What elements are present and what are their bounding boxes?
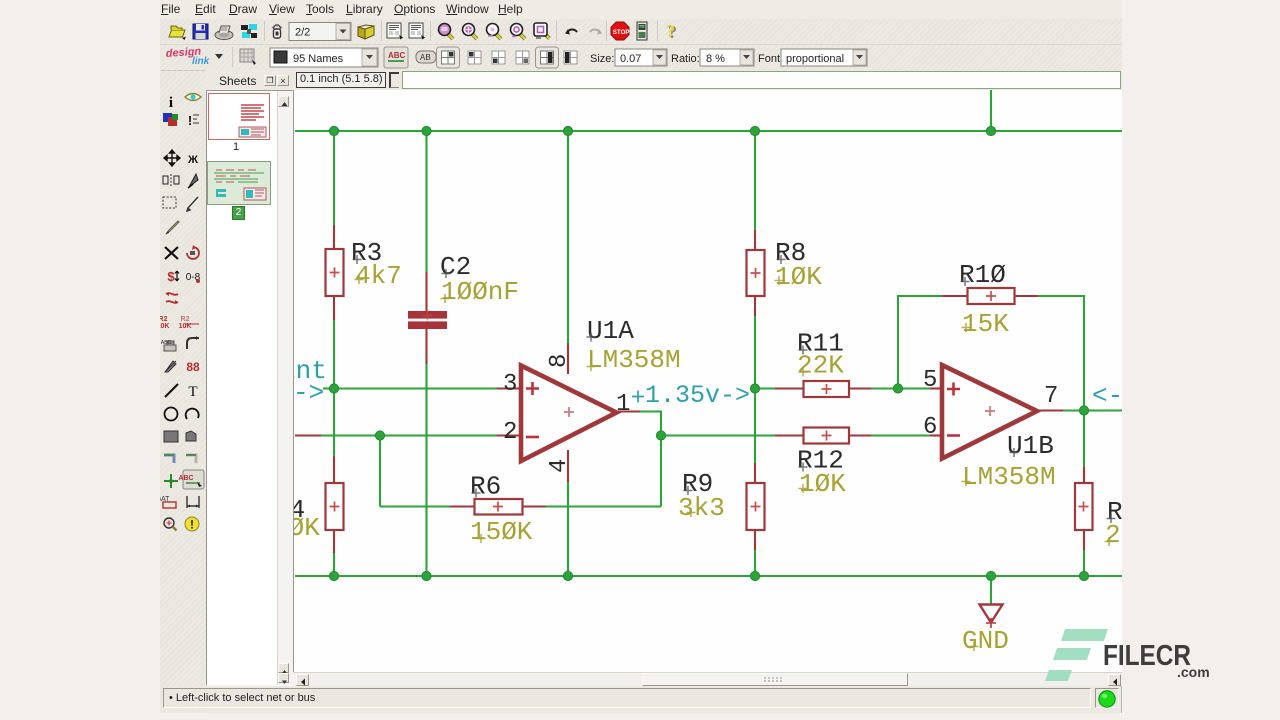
svg-text:2: 2 <box>503 419 517 446</box>
node bottom bus R4 <box>329 571 338 580</box>
tool measure <box>188 113 199 128</box>
svg-text:1ØK: 1ØK <box>775 262 822 292</box>
wire lead R10 right <box>1014 295 1038 297</box>
svg-text:1: 1 <box>616 391 630 418</box>
resistor R3 <box>326 249 344 296</box>
wire vertical R3 R4 branch <box>333 131 335 576</box>
toolbar row 2 <box>160 45 1122 71</box>
print icon <box>215 26 233 40</box>
grid icon <box>240 49 256 65</box>
svg-text:LM358M: LM358M <box>587 345 681 375</box>
separator <box>264 21 265 41</box>
menu bar <box>160 0 1122 20</box>
svg-text:1ØØnF: 1ØØnF <box>441 277 519 307</box>
origin marker R12 <box>799 463 808 472</box>
origin marker 10K R8 <box>775 276 784 285</box>
resistor R10 <box>968 288 1015 304</box>
tool view eye <box>185 94 201 101</box>
sheets scrollbar <box>277 91 293 685</box>
tool dat <box>159 496 176 508</box>
open icon <box>169 26 186 40</box>
wire lead R12 right <box>848 434 871 436</box>
hscroll right arrow <box>1108 674 1121 686</box>
tool line <box>165 384 178 397</box>
node pin2 net <box>375 431 384 440</box>
status LED <box>1095 688 1119 708</box>
separator <box>606 21 607 41</box>
origin marker R13 <box>1107 514 1116 523</box>
value marker R3 <box>330 268 340 278</box>
origin marker 150K <box>477 534 486 543</box>
wire lead U1A pin3 <box>497 387 522 389</box>
zoom prev icon <box>487 24 502 40</box>
value marker R13 <box>1079 502 1089 512</box>
zoom page icon <box>534 23 550 39</box>
tool dimension <box>187 496 199 508</box>
lock icon <box>272 24 282 38</box>
svg-text:7: 7 <box>1044 383 1058 410</box>
svg-text:2/2: 2/2 <box>295 27 310 39</box>
origin marker 22K <box>799 368 808 377</box>
svg-text:10K: 10K <box>160 323 169 330</box>
value marker R11 <box>822 384 832 394</box>
canvas <box>293 90 1122 672</box>
report icon <box>637 22 647 40</box>
separator <box>430 21 431 41</box>
wire lead R12 left <box>775 434 804 436</box>
origin marker 3k3 <box>687 508 696 517</box>
node bottom bus R9 <box>750 571 759 580</box>
svg-text:Font:: Font: <box>758 53 783 65</box>
svg-text:ABC: ABC <box>161 340 172 346</box>
stop icon <box>611 22 630 40</box>
value marker R9 <box>751 502 761 512</box>
value marker R8 <box>751 268 761 278</box>
svg-text:1.35v->: 1.35v-> <box>645 381 750 410</box>
wire lead U1B pin5 <box>930 387 943 389</box>
svg-text:95 Names: 95 Names <box>293 53 344 65</box>
svg-text:3: 3 <box>503 371 517 398</box>
svg-text:ABC: ABC <box>178 475 193 482</box>
hscroll left arrow <box>296 674 309 686</box>
origin marker R9 <box>684 486 693 495</box>
netlist icon 1 <box>387 23 403 40</box>
zoom in icon <box>463 24 478 40</box>
wire top supply bus <box>295 130 1122 132</box>
wire lead U1B pin6 <box>930 434 943 436</box>
node top bus R3 <box>329 126 338 135</box>
resistor R4 <box>326 483 344 530</box>
svg-text:0.07: 0.07 <box>620 53 641 65</box>
hscroll <box>293 672 1122 686</box>
wire lead R4 top <box>333 456 335 484</box>
tool corner <box>187 336 199 349</box>
svg-text:->: -> <box>294 378 324 408</box>
statusbar <box>160 686 1122 710</box>
ground <box>980 605 1003 629</box>
svg-text:Size:: Size: <box>590 53 614 65</box>
svg-text:proportional: proportional <box>786 53 844 65</box>
svg-text:T: T <box>188 384 197 400</box>
wire R6 run <box>380 436 661 507</box>
canvas top bar <box>293 70 1122 90</box>
wire lead C2 top <box>425 272 427 312</box>
resistor R11 <box>804 381 850 397</box>
node R10 tap <box>893 384 902 393</box>
wire lead R6 left <box>450 505 475 507</box>
origin marker 4k7 <box>355 275 364 284</box>
tool find zoom <box>164 518 177 531</box>
svg-text:22K: 22K <box>797 351 844 381</box>
wire R11 run to U1B pin5 <box>755 387 931 389</box>
node bottom bus R13 <box>1079 571 1088 580</box>
origin marker U1A <box>587 333 596 342</box>
wire vertical C2 branch <box>425 131 427 576</box>
tool pencil <box>166 221 179 234</box>
wire vertical R8 R9 branch <box>754 131 756 576</box>
resistor R6 <box>475 499 523 515</box>
wire lead R13 bottom <box>1083 529 1085 550</box>
svg-text:U1A: U1A <box>587 316 634 346</box>
zoom sel icon <box>511 24 526 40</box>
origin marker 22 clipped <box>1105 537 1114 546</box>
wire R13 branch <box>1083 411 1085 577</box>
node top bus entry <box>986 126 995 135</box>
origin marker R8 <box>777 255 786 264</box>
origin marker C2 <box>442 269 451 278</box>
export icon <box>241 24 257 38</box>
sheets restore button <box>264 75 276 86</box>
wire top supply entry <box>990 90 992 131</box>
separator <box>556 21 557 41</box>
node bottom bus C2 <box>422 571 431 580</box>
save icon <box>193 24 208 39</box>
value marker R10 <box>986 291 996 301</box>
node top bus U1A <box>563 126 572 135</box>
tool error <box>185 517 199 532</box>
wire lead R13 top <box>1083 467 1085 484</box>
svg-text:.com: .com <box>1177 664 1210 680</box>
tool select <box>163 197 176 208</box>
resistor R9 <box>747 483 765 530</box>
tool text abc pressed <box>178 470 204 489</box>
capacitor C2 <box>408 311 447 319</box>
tool move <box>164 150 180 166</box>
toolbar row 1 <box>160 19 1122 45</box>
abc button <box>384 47 408 68</box>
wire feedback node to R12 and U1B pin6 <box>661 434 931 436</box>
svg-text:R1Ø: R1Ø <box>959 260 1006 290</box>
tool mirror <box>163 174 179 186</box>
value marker C2 <box>423 311 433 321</box>
position buttons <box>437 47 578 68</box>
svg-text:link: link <box>192 56 210 67</box>
tool copper 2 <box>186 455 196 463</box>
node pin3 net <box>329 384 338 393</box>
tool rotate flag <box>188 174 198 188</box>
sheets list <box>206 90 293 686</box>
wire U1A pin2 input net <box>321 434 498 436</box>
hscroll thumb <box>642 673 908 686</box>
wire lead R9 top <box>754 463 756 484</box>
tool stamp <box>161 340 176 351</box>
wire R10 feedback run <box>898 296 1084 411</box>
tool copper <box>164 455 174 463</box>
tool delete <box>165 247 178 259</box>
wire lead R4 bottom <box>333 529 335 553</box>
svg-text:!: ! <box>188 113 192 128</box>
svg-text:4k7: 4k7 <box>355 261 402 291</box>
wire lead C2 bottom <box>425 328 427 364</box>
undo icon <box>565 29 577 35</box>
colour combo 95 Names <box>270 48 378 67</box>
wire vertical U1A power branch <box>567 131 569 576</box>
origin marker GND <box>970 642 979 651</box>
wire lead U1A pin2 <box>295 434 522 436</box>
svg-text:STOP: STOP <box>613 29 630 36</box>
wire U1A output to feedback node <box>639 412 661 507</box>
origin marker 10K R12 <box>799 484 808 493</box>
svg-text:$: $ <box>167 269 175 284</box>
origin marker LM358M B <box>962 477 971 486</box>
sheet thumbnail 2 selected <box>207 161 271 205</box>
tool circle <box>165 408 178 421</box>
svg-text:8 %: 8 % <box>706 53 725 65</box>
svg-text:R2: R2 <box>160 316 168 323</box>
wire lead R8 top <box>754 230 756 251</box>
tool ref text <box>157 316 170 330</box>
tool rotate shape <box>187 245 199 259</box>
origin marker R11 <box>799 346 808 355</box>
wire lead R6 right <box>521 505 546 507</box>
coordinate readout <box>296 72 386 88</box>
separator <box>381 21 382 41</box>
wire U1A pin3 input net <box>323 387 498 389</box>
svg-text:GND: GND <box>962 626 1009 656</box>
node top bus R8 <box>750 126 759 135</box>
svg-text:3k3: 3k3 <box>678 493 725 523</box>
redo icon <box>590 29 602 35</box>
node top bus C2 <box>422 126 431 135</box>
node U1A feedback <box>656 431 665 440</box>
tool stretch <box>167 269 179 284</box>
tool add node <box>164 474 178 488</box>
origin marker U1B <box>1010 448 1019 457</box>
origin marker R3 <box>353 255 362 264</box>
wire lead R3 bottom <box>333 295 335 320</box>
wire lead U1A pin8 <box>567 343 569 374</box>
svg-text:5: 5 <box>923 367 937 394</box>
sheets panel <box>206 70 293 686</box>
svg-text:<-I: <-I <box>1092 381 1122 411</box>
svg-text:88: 88 <box>186 360 200 374</box>
tool value text <box>179 316 199 330</box>
wire lead R8 bottom <box>754 295 756 316</box>
tool polygon <box>186 431 196 441</box>
svg-text:4: 4 <box>546 459 573 473</box>
svg-text:?: ? <box>666 21 675 41</box>
op-amp U1A <box>521 366 617 462</box>
origin marker R10 <box>961 277 970 286</box>
origin marker R6 <box>472 489 481 498</box>
origin marker 100nF <box>441 294 450 303</box>
wire lead U1A pin4 <box>567 450 569 482</box>
tool net pair <box>186 360 200 374</box>
svg-text:6: 6 <box>923 414 937 441</box>
tool arc <box>186 409 199 419</box>
wire GND drop <box>990 576 992 604</box>
value marker R12 <box>822 431 832 441</box>
value marker R6 <box>493 502 503 512</box>
page combo 2/2 <box>289 23 351 41</box>
svg-text:15ØK: 15ØK <box>470 517 533 547</box>
svg-text:8: 8 <box>546 354 573 368</box>
node bottom bus GND <box>986 571 995 580</box>
tool gang <box>187 154 198 166</box>
separator <box>657 21 658 41</box>
resistor R8 <box>747 250 765 296</box>
sheet thumbnail 1 <box>208 93 270 140</box>
zoom out icon <box>439 24 454 40</box>
wire lead R9 bottom <box>754 529 756 550</box>
tool pin <box>186 272 201 283</box>
svg-text:LM358M: LM358M <box>962 462 1056 492</box>
svg-text:!: ! <box>190 518 194 532</box>
svg-text:ABC: ABC <box>388 51 406 60</box>
svg-text:1ØK: 1ØK <box>294 513 320 543</box>
node U1B output <box>1079 406 1088 415</box>
wire lead R11 left <box>775 387 804 389</box>
svg-text:15K: 15K <box>962 309 1009 339</box>
resistor R12 <box>804 428 850 444</box>
svg-text:22: 22 <box>1105 520 1122 550</box>
node bottom bus U1A <box>563 571 572 580</box>
net marker 1.35v <box>632 391 644 403</box>
origin marker 15K <box>962 323 971 332</box>
svg-text:1ØK: 1ØK <box>799 469 846 499</box>
resistor R13 <box>1075 483 1093 530</box>
wire bottom ground bus <box>295 575 1122 577</box>
wire lead R3 top <box>333 225 335 250</box>
wire U1B output <box>1062 409 1122 411</box>
svg-text:Ratio:: Ratio: <box>671 53 700 65</box>
tool slope <box>165 361 176 372</box>
wire lead R10 left <box>942 295 968 297</box>
svg-text:R2: R2 <box>181 316 190 323</box>
node R11 input <box>750 384 759 393</box>
library 3d icon <box>358 25 374 39</box>
tool wire pen <box>187 197 198 211</box>
watermark <box>1040 620 1280 690</box>
ab tag button <box>416 51 436 63</box>
left tool palette <box>160 70 206 713</box>
value marker R4 <box>330 502 340 512</box>
svg-text:R6: R6 <box>470 472 501 502</box>
svg-text:Ж: Ж <box>187 154 198 166</box>
svg-text:AB: AB <box>420 53 431 62</box>
tool rect filled <box>164 431 178 442</box>
tool colours <box>163 113 178 126</box>
op-amp U1B <box>942 365 1037 459</box>
sheets close button <box>277 75 289 86</box>
edit field <box>402 71 1121 89</box>
origin marker LM358M A <box>587 362 596 371</box>
svg-text:i: i <box>169 95 173 111</box>
tool swap <box>166 292 178 304</box>
netlist icon 2 <box>409 23 425 40</box>
wire lead R11 right <box>848 387 871 389</box>
wire lead U1A pin1 <box>615 410 640 412</box>
wire lead U1B pin7 <box>1036 409 1063 411</box>
